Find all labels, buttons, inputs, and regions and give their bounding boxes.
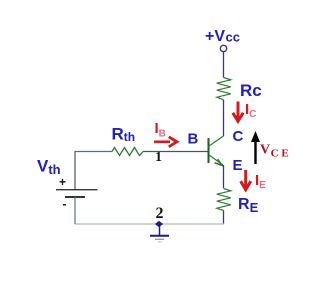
svg-text:E: E xyxy=(233,157,243,174)
svg-text:B: B xyxy=(188,131,199,148)
svg-text:2: 2 xyxy=(156,205,164,222)
transistor emitter arrowhead xyxy=(215,159,222,165)
svg-text:C: C xyxy=(233,128,244,145)
svg-text:-: - xyxy=(63,197,67,211)
svg-text:Rc: Rc xyxy=(240,81,262,100)
wire Vcc to Rc xyxy=(223,52,225,78)
wire RE to bottom xyxy=(223,211,225,225)
top wire xyxy=(75,151,113,153)
svg-text:RE: RE xyxy=(238,196,259,215)
resistor Rth xyxy=(112,148,143,156)
current arrow IB xyxy=(154,137,177,147)
transistor Q1 base bar xyxy=(208,138,210,163)
svg-text:IE: IE xyxy=(255,172,266,191)
node 2 junction xyxy=(155,221,163,227)
current arrow IC xyxy=(233,102,243,122)
svg-text:IB: IB xyxy=(155,120,166,140)
base wire xyxy=(143,151,208,153)
svg-text:Rth: Rth xyxy=(112,125,136,145)
ground bar 2 xyxy=(155,238,164,240)
ground bar 3 xyxy=(158,241,162,243)
transistor collector lead xyxy=(209,136,224,146)
bottom wire xyxy=(75,223,224,225)
battery Vth plate short xyxy=(65,196,85,198)
transistor emitter lead xyxy=(209,155,223,165)
resistor RE xyxy=(217,189,231,211)
wire emitter to RE xyxy=(223,165,225,188)
ground stem xyxy=(159,226,161,235)
svg-text:+Vcc: +Vcc xyxy=(205,28,240,45)
wire battery bottom lead xyxy=(74,197,76,224)
wire Rc to collector xyxy=(223,100,225,136)
svg-text:1: 1 xyxy=(155,150,162,165)
VCE arrow xyxy=(251,131,260,164)
svg-text:Vth: Vth xyxy=(37,157,61,178)
svg-text:IC: IC xyxy=(245,101,256,120)
svg-text:VC E: VC E xyxy=(260,143,289,160)
+Vcc terminal xyxy=(220,45,226,51)
battery Vth plate long xyxy=(56,189,98,191)
current arrow IE xyxy=(241,170,251,190)
resistor Rc xyxy=(217,78,231,100)
svg-text:+: + xyxy=(59,175,66,189)
wire battery top lead xyxy=(74,152,76,190)
ground bar 1 xyxy=(150,235,169,237)
